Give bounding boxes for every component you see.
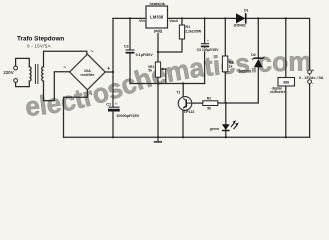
LED D3 green <box>210 120 239 130</box>
wire C2 lower to ground line <box>129 53 131 84</box>
wire LED cathode to bus <box>225 130 227 137</box>
wire bridge minus to bus riser <box>64 90 88 137</box>
wire D1 cathode to output corner <box>246 18 310 70</box>
node T1 collector ground line <box>182 82 184 84</box>
wire bridge plus output to rail corner <box>105 18 113 72</box>
svg-text:5k: 5k <box>148 68 152 72</box>
svg-text:LM338: LM338 <box>150 15 164 20</box>
node plus rail corner <box>112 71 114 73</box>
wire R2 to zener corner <box>218 67 258 103</box>
svg-text:0 - 15Vdc / 5A: 0 - 15Vdc / 5A <box>299 76 324 80</box>
node R3 LED R2 junction <box>225 102 227 104</box>
svg-text:0.1µF/50V: 0.1µF/50V <box>136 53 154 57</box>
svg-text:D1: D1 <box>244 9 249 13</box>
node R3 rail <box>224 17 226 19</box>
wire voltmeter top stub <box>285 18 287 77</box>
svg-text:0 - 15V/5A: 0 - 15V/5A <box>27 44 51 49</box>
svg-text:Vin: Vin <box>139 18 146 23</box>
wire C3 bottom to ground line <box>204 47 206 83</box>
svg-text:220V: 220V <box>3 70 13 75</box>
node T1 bus <box>182 136 184 138</box>
node C2 rail <box>129 17 131 19</box>
svg-text:~: ~ <box>63 65 66 71</box>
svg-text:rectifier: rectifier <box>80 73 94 77</box>
svg-text:R1: R1 <box>186 25 191 29</box>
terminal 220V bottom <box>14 79 18 83</box>
wire secondary bottom to bridge left <box>44 72 70 101</box>
ground <box>154 137 162 142</box>
svg-text:Vout: Vout <box>169 18 178 23</box>
svg-text:Trafo Stepdown: Trafo Stepdown <box>17 36 64 43</box>
wire voltmeter bottom stub <box>285 86 287 137</box>
capacitor C2 <box>124 44 153 57</box>
bridge rectifier BR1 <box>70 54 106 90</box>
digital voltmeter M1 <box>270 78 295 95</box>
node R1 rail <box>181 17 183 19</box>
svg-text:(adj): (adj) <box>154 29 163 33</box>
svg-text:heatsink: heatsink <box>149 2 165 6</box>
wire VR1 wiper to ground line <box>162 68 166 70</box>
terminal output plus <box>308 70 312 74</box>
svg-text:1N5358: 1N5358 <box>238 69 251 73</box>
resistor R1 <box>179 25 201 39</box>
svg-text:1k: 1k <box>229 65 233 69</box>
svg-text:10000µF/25V: 10000µF/25V <box>116 114 139 118</box>
node VR1 bus <box>157 136 159 138</box>
svg-text:888: 888 <box>283 80 289 84</box>
svg-text:+: + <box>207 39 209 43</box>
transformer TR primary winding <box>29 67 31 81</box>
wire R3 top stub <box>224 18 226 56</box>
terminal 220V top <box>14 66 18 70</box>
diode D1 1N5402 <box>233 9 248 28</box>
svg-text:+: + <box>107 66 110 72</box>
svg-text:10A: 10A <box>84 69 91 73</box>
svg-text:C3 100µF/25V: C3 100µF/25V <box>197 48 220 52</box>
svg-text:green: green <box>210 127 219 131</box>
label output rating <box>299 75 326 79</box>
wire LED anode <box>225 103 227 124</box>
svg-text:R2: R2 <box>207 96 211 100</box>
svg-text:1N5402: 1N5402 <box>233 23 246 27</box>
wire 220V terminal top to primary <box>16 58 30 66</box>
ground line wire <box>130 83 205 85</box>
node LED bus <box>225 136 227 138</box>
svg-text:T1: T1 <box>176 91 180 95</box>
wire R3 bottom stub <box>224 72 226 103</box>
capacitor C1 <box>106 102 139 118</box>
wire LM338 Vout rail to D1 <box>168 17 237 19</box>
resistor R3 <box>222 56 233 72</box>
transformer core <box>35 65 38 84</box>
wire zener top stub <box>257 18 259 58</box>
wire R1 bottom to adj line <box>158 39 182 52</box>
svg-text:~: ~ <box>91 49 94 55</box>
node C1 bus <box>112 136 114 138</box>
svg-text:5k: 5k <box>207 106 211 110</box>
node VR1 ground line <box>157 82 159 84</box>
wire 220V terminal bottom to primary <box>16 81 30 87</box>
svg-text:voltmeter: voltmeter <box>270 90 286 94</box>
potentiometer VR1 <box>148 62 164 77</box>
transformer secondary winding <box>42 67 44 81</box>
resistor R2 <box>203 96 218 110</box>
node voltmeter bus <box>285 136 287 138</box>
terminal output minus <box>308 80 312 84</box>
svg-text:TIP122: TIP122 <box>183 110 194 114</box>
svg-text:+: + <box>312 68 315 73</box>
wire T1 emitter to bus <box>182 110 184 137</box>
wire secondary top to bridge <box>44 51 87 66</box>
zener D2 1N5358 <box>238 53 264 74</box>
wire C2 branch upper <box>129 18 131 50</box>
wire output terminals segment <box>309 74 311 80</box>
wire C3 top stub <box>204 18 206 43</box>
transistor T1 TIP122 <box>176 91 194 115</box>
wire input rail to LM338 Vin <box>113 17 146 19</box>
node adj R1 junction <box>157 51 159 53</box>
wire C1 to ground bus <box>112 112 114 138</box>
svg-text:2,2kΩ/5W: 2,2kΩ/5W <box>185 30 202 34</box>
node D2 rail <box>257 17 259 19</box>
wire T1 base to R2 <box>192 102 203 104</box>
wire VR1 bottom to bus <box>157 77 159 137</box>
wire T1 collector drop <box>182 84 184 99</box>
regulator U1 LM338 <box>139 2 179 33</box>
capacitor C3 <box>196 39 219 52</box>
wire ground bus <box>64 136 310 138</box>
svg-text:D2: D2 <box>251 53 256 57</box>
wire LM338 adj to VR1 <box>157 28 159 62</box>
wire minus terminal down <box>309 84 311 138</box>
node voltmeter rail <box>285 17 287 19</box>
node C3 rail <box>203 17 205 19</box>
svg-text:C2: C2 <box>124 44 129 48</box>
watermark electroschematics.com <box>26 71 311 117</box>
wire R1 top stub <box>181 18 183 25</box>
svg-text:C1: C1 <box>106 102 111 106</box>
wire plus node down to C1 <box>112 72 114 107</box>
